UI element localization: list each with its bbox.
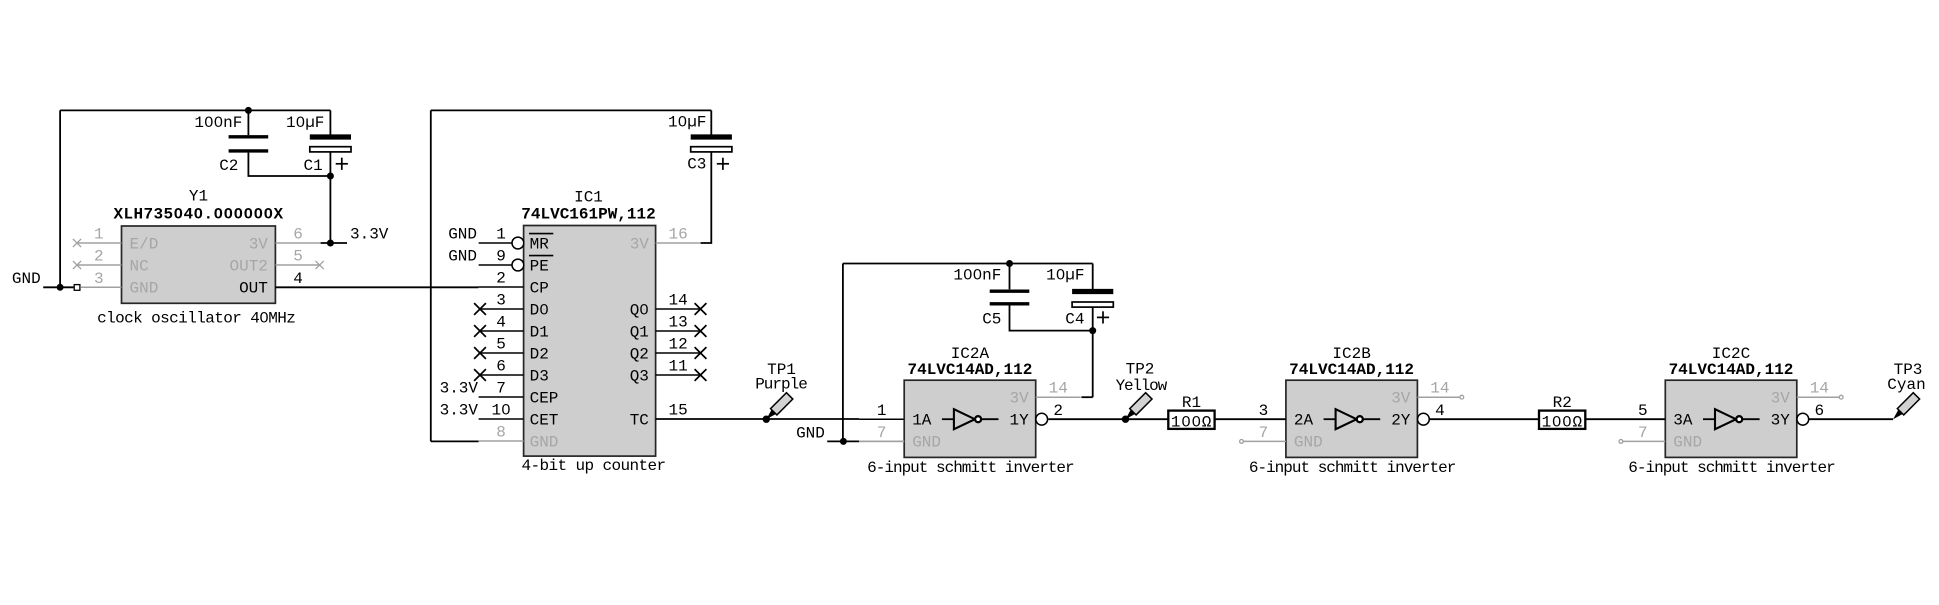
svg-text:7: 7	[877, 424, 887, 442]
svg-text:3.3V: 3.3V	[440, 402, 479, 420]
svg-text:5: 5	[293, 248, 303, 266]
svg-text:3.3V: 3.3V	[440, 380, 479, 398]
svg-text:74LVC161PW,112: 74LVC161PW,112	[521, 206, 655, 224]
svg-text:MR: MR	[530, 235, 550, 253]
svg-text:C2: C2	[219, 157, 238, 175]
svg-text:14: 14	[668, 292, 687, 310]
svg-text:R1: R1	[1182, 394, 1201, 412]
svg-text:1A: 1A	[912, 412, 932, 430]
svg-text:Q3: Q3	[630, 367, 649, 385]
svg-text:D2: D2	[530, 345, 549, 363]
svg-text:5: 5	[1638, 402, 1648, 420]
svg-text:CET: CET	[530, 411, 559, 429]
svg-text:10: 10	[491, 402, 510, 420]
svg-text:C5: C5	[982, 311, 1001, 329]
svg-text:10µF: 10µF	[668, 114, 706, 132]
svg-text:XLH735040.000000X: XLH735040.000000X	[113, 205, 283, 223]
svg-text:5: 5	[496, 336, 506, 354]
svg-text:14: 14	[1810, 380, 1829, 398]
svg-text:OUT: OUT	[239, 280, 268, 298]
svg-text:6: 6	[1814, 402, 1824, 420]
svg-text:14: 14	[1430, 380, 1449, 398]
svg-text:Y1: Y1	[189, 187, 208, 205]
svg-text:GND: GND	[448, 248, 477, 266]
svg-text:GND: GND	[1294, 433, 1323, 451]
svg-text:GND: GND	[130, 280, 159, 298]
svg-text:GND: GND	[796, 424, 825, 442]
svg-text:3V: 3V	[1771, 390, 1791, 408]
svg-text:Q0: Q0	[630, 301, 649, 319]
svg-text:3V: 3V	[630, 235, 650, 253]
svg-text:GND: GND	[912, 433, 941, 451]
svg-text:1Y: 1Y	[1009, 412, 1029, 430]
svg-text:E/D: E/D	[130, 235, 159, 253]
svg-text:CEP: CEP	[530, 389, 559, 407]
svg-text:Q2: Q2	[630, 345, 649, 363]
svg-text:4: 4	[496, 314, 506, 332]
svg-text:D0: D0	[530, 301, 549, 319]
svg-text:IC1: IC1	[574, 189, 603, 207]
svg-text:16: 16	[668, 226, 687, 244]
svg-text:1: 1	[877, 402, 887, 420]
svg-text:6: 6	[293, 226, 303, 244]
svg-text:CP: CP	[530, 279, 549, 297]
svg-text:6-input schmitt inverter: 6-input schmitt inverter	[867, 459, 1074, 477]
svg-text:C4: C4	[1065, 311, 1084, 329]
svg-text:3: 3	[496, 292, 506, 310]
svg-text:C3: C3	[687, 156, 706, 174]
svg-text:3V: 3V	[1009, 390, 1029, 408]
svg-text:3: 3	[94, 270, 104, 288]
svg-text:7: 7	[1259, 424, 1269, 442]
svg-text:2: 2	[94, 248, 104, 266]
svg-text:D3: D3	[530, 367, 549, 385]
svg-text:2: 2	[496, 270, 506, 288]
svg-text:3V: 3V	[249, 235, 269, 253]
svg-text:100Ω: 100Ω	[1542, 413, 1583, 431]
svg-text:4: 4	[293, 270, 303, 288]
svg-text:74LVC14AD,112: 74LVC14AD,112	[907, 361, 1032, 379]
svg-text:74LVC14AD,112: 74LVC14AD,112	[1289, 361, 1414, 379]
svg-text:TP2: TP2	[1126, 360, 1155, 378]
svg-text:14: 14	[1049, 380, 1068, 398]
svg-text:GND: GND	[1673, 433, 1702, 451]
svg-text:2: 2	[1053, 402, 1063, 420]
svg-text:2A: 2A	[1294, 412, 1314, 430]
svg-text:9: 9	[496, 248, 506, 266]
svg-text:GND: GND	[448, 226, 477, 244]
svg-text:R2: R2	[1553, 394, 1572, 412]
svg-text:D1: D1	[530, 323, 549, 341]
svg-text:TC: TC	[630, 411, 649, 429]
svg-text:10µF: 10µF	[1046, 267, 1084, 285]
svg-text:100nF: 100nF	[194, 114, 242, 132]
svg-text:1: 1	[94, 226, 104, 244]
svg-text:GND: GND	[12, 270, 41, 288]
svg-text:Cyan: Cyan	[1887, 376, 1925, 394]
svg-text:11: 11	[668, 358, 687, 376]
svg-text:8: 8	[496, 424, 506, 442]
svg-text:7: 7	[1638, 424, 1648, 442]
svg-text:13: 13	[668, 314, 687, 332]
svg-text:3Y: 3Y	[1771, 412, 1791, 430]
svg-text:4: 4	[1435, 402, 1445, 420]
svg-text:NC: NC	[130, 257, 149, 275]
svg-text:PE: PE	[530, 257, 549, 275]
svg-text:Purple: Purple	[755, 376, 807, 394]
svg-text:6: 6	[496, 358, 506, 376]
svg-text:100nF: 100nF	[953, 267, 1001, 285]
svg-text:2Y: 2Y	[1391, 412, 1411, 430]
svg-text:3.3V: 3.3V	[350, 225, 389, 243]
svg-text:GND: GND	[530, 433, 559, 451]
svg-text:Q1: Q1	[630, 323, 649, 341]
svg-text:3V: 3V	[1391, 390, 1411, 408]
svg-text:OUT2: OUT2	[229, 257, 267, 275]
svg-text:Yellow: Yellow	[1116, 377, 1168, 395]
svg-text:74LVC14AD,112: 74LVC14AD,112	[1669, 361, 1794, 379]
svg-text:C1: C1	[303, 157, 322, 175]
svg-text:6-input schmitt inverter: 6-input schmitt inverter	[1249, 459, 1456, 477]
svg-text:7: 7	[496, 380, 506, 398]
svg-text:clock oscillator 40MHz: clock oscillator 40MHz	[97, 310, 295, 328]
svg-text:100Ω: 100Ω	[1171, 413, 1212, 431]
svg-text:12: 12	[668, 336, 687, 354]
svg-text:1: 1	[496, 226, 506, 244]
svg-text:15: 15	[668, 402, 687, 420]
svg-text:10µF: 10µF	[286, 114, 324, 132]
svg-text:6-input schmitt inverter: 6-input schmitt inverter	[1628, 459, 1835, 477]
svg-text:4-bit up counter: 4-bit up counter	[521, 457, 665, 475]
svg-text:3: 3	[1259, 402, 1269, 420]
svg-text:3A: 3A	[1673, 412, 1693, 430]
